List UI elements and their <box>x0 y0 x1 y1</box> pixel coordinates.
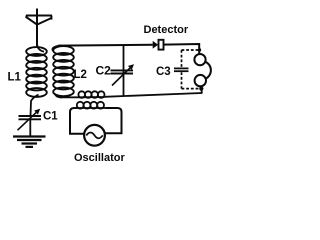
phones: bottom earpiece <box>195 75 206 86</box>
svg-text:C1: C1 <box>43 111 58 123</box>
wire top rail right (diode to corner) <box>163 44 199 55</box>
inductor L1 <box>26 47 47 97</box>
svg-text:L1: L1 <box>8 72 22 84</box>
capacitor C1 (variable) <box>18 110 42 136</box>
wire bottom rail right segment <box>105 93 203 97</box>
wire L1 to C1 <box>31 95 39 117</box>
svg-text:C3: C3 <box>156 66 171 78</box>
coupling coil on bottom rail <box>78 91 104 98</box>
junction dot bottom <box>199 87 203 91</box>
C1 arrowhead <box>34 109 40 115</box>
svg-text:Detector: Detector <box>144 24 189 36</box>
capacitor C2 (variable) <box>111 45 134 96</box>
wire L2 bottom hook <box>55 94 62 98</box>
capacitor C3 <box>174 68 189 71</box>
junction dot top <box>198 48 201 51</box>
oscillator box outline <box>70 108 122 134</box>
svg-text:C2: C2 <box>96 64 112 78</box>
phones: headband arc <box>205 61 211 79</box>
wire bottom rail left segment <box>60 96 79 98</box>
phones: top earpiece <box>194 54 205 65</box>
C2 arrowhead <box>128 64 134 70</box>
wire antenna to L1 <box>37 44 44 52</box>
oscillator coupling coil on box top <box>77 102 107 109</box>
antenna <box>26 9 52 47</box>
oscillator sine wave <box>86 133 102 139</box>
wire top rail left (L2 to diode) <box>58 44 153 47</box>
inductor L2 <box>53 46 74 96</box>
wire L2 top hook <box>52 46 62 51</box>
svg-text:Oscillator: Oscillator <box>74 152 125 164</box>
diode detector <box>153 40 164 50</box>
ground <box>13 137 46 147</box>
dashed earphone box <box>182 50 201 89</box>
oscillator source circle <box>84 125 105 146</box>
svg-text:L2: L2 <box>74 69 87 81</box>
wire right riser to phones <box>201 86 203 94</box>
